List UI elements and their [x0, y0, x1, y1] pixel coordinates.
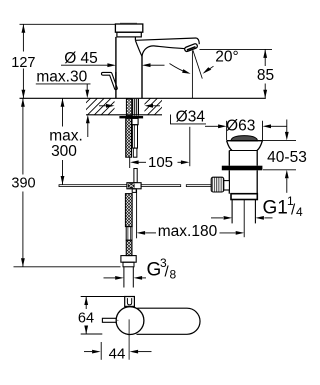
dimension G1 1/4 [211, 217, 273, 219]
dimension diameter 63 [205, 121, 287, 140]
drain body [229, 170, 257, 193]
dimension 127 [20, 24, 116, 98]
drain rubber seal [222, 166, 263, 171]
svg-text:max.: max. [49, 128, 83, 145]
drain knob stub [224, 181, 230, 190]
svg-text:max.180: max.180 [158, 223, 218, 240]
svg-text:85: 85 [257, 67, 274, 84]
diameter 34 label [171, 115, 207, 124]
countertop deck [20, 98, 266, 115]
dimension max.180 [137, 190, 245, 239]
svg-text:Ø 45: Ø 45 [64, 50, 98, 67]
top view lever [125, 297, 135, 307]
dimension max.300 [62, 98, 64, 184]
mixer tee cross [127, 183, 141, 189]
dimension 20 deg [170, 50, 214, 98]
supply pipes in shank [133, 99, 139, 116]
G3/8 connection tube [124, 267, 133, 288]
flexible hose lower [125, 194, 132, 227]
svg-text:105: 105 [148, 154, 173, 171]
dimension 64 [81, 297, 125, 335]
dimension diameter 34 hole arrows [99, 105, 160, 107]
drain side knob [211, 177, 224, 192]
hose end collar [123, 262, 134, 267]
horizontal rod left [59, 185, 127, 187]
faucet body left edge [115, 37, 117, 98]
svg-text:Ø63: Ø63 [226, 117, 255, 134]
svg-text:max.30: max.30 [36, 68, 87, 85]
threaded shank [126, 99, 131, 116]
tube below tee [132, 189, 136, 193]
top view centerlines [103, 319, 129, 359]
svg-text:390: 390 [11, 175, 35, 191]
svg-text:64: 64 [78, 311, 94, 327]
hose end knurled section [126, 240, 132, 255]
mounting washer [119, 116, 143, 118]
dimension G3/8 [104, 277, 147, 279]
svg-text:300: 300 [51, 143, 77, 160]
horizontal rod to drain knob [186, 185, 211, 187]
drain tailpipe [232, 200, 255, 224]
drain bottom ring [231, 194, 257, 200]
connector tube above tee [134, 169, 137, 183]
side lever [103, 72, 116, 90]
hose end nut [121, 256, 136, 263]
dimension 85 [200, 49, 273, 98]
dimension 390 [14, 98, 121, 266]
drain plug dome [231, 136, 258, 141]
svg-text:Ø34: Ø34 [176, 109, 206, 126]
faucet cap band [117, 32, 141, 37]
drain upper cylinder [229, 151, 257, 166]
drain flange bell [227, 141, 263, 151]
svg-text:G1: G1 [263, 197, 288, 218]
dimension 105 [130, 127, 190, 168]
top view spout [137, 308, 201, 334]
aerator [184, 43, 198, 52]
svg-text:20°: 20° [215, 48, 238, 65]
svg-text:8: 8 [170, 268, 177, 282]
svg-text:127: 127 [11, 55, 35, 71]
svg-text:44: 44 [109, 345, 126, 362]
spout [135, 37, 199, 56]
top view body circle [116, 307, 144, 335]
faucet body right edge [141, 56, 143, 98]
supply pipe below deck [132, 118, 138, 157]
dimension 44 [84, 342, 152, 360]
dimension max.30 [36, 84, 91, 137]
dimension 40-53 [262, 120, 297, 193]
hose end fitting [126, 227, 132, 241]
svg-text:40-53: 40-53 [267, 149, 307, 166]
top view side stub [102, 318, 116, 322]
horizontal rod right [141, 185, 181, 187]
dimension diameter 45 [61, 64, 165, 66]
faucet cap [115, 23, 142, 32]
svg-text:4: 4 [296, 205, 303, 219]
flexible hose upper [126, 118, 132, 157]
